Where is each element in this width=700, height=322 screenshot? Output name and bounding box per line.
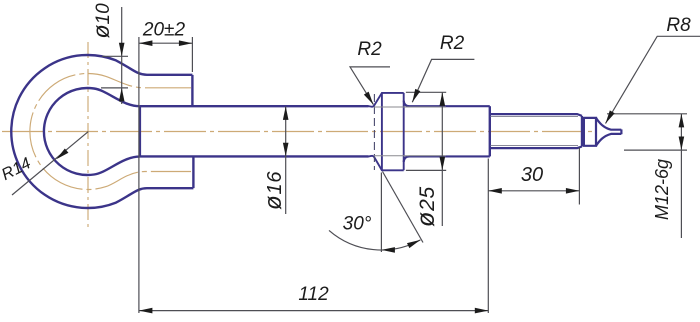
dim ø16 arrows (283, 106, 289, 120)
dim 30deg arrows (381, 247, 395, 253)
dashed line on flange face (373, 94, 375, 170)
leader R8 shelf and line (606, 36, 700, 123)
shaft bottom edge (140, 155, 369, 157)
R2 fillet right top (404, 101, 490, 107)
dim 30deg vertical extension (380, 173, 382, 253)
thread minor diameter line top (491, 116, 578, 118)
30 deg taper top with R2 notch and flange top (369, 93, 404, 107)
svg-text:30: 30 (521, 164, 543, 186)
dim ø10 extension lines (101, 56, 128, 88)
R2 fillet right bottom (404, 156, 490, 162)
svg-text:R2: R2 (440, 33, 465, 54)
dim ø10 arrows (119, 43, 125, 57)
centerline: eye vertical axis (87, 42, 89, 227)
svg-text:ø16: ø16 (260, 171, 287, 210)
leader R2 second arrow (410, 89, 421, 104)
dim ø16 line (285, 106, 287, 214)
eye rod end cap top (191, 75, 193, 106)
thread bottom edge (490, 147, 582, 149)
shared left extension line for 20±2 and 112 (138, 37, 140, 313)
dim 112 line (139, 310, 488, 312)
tip land (584, 118, 596, 146)
svg-text:R2: R2 (357, 39, 382, 60)
R8 tip curve top and nose top (596, 118, 621, 130)
leader R2 second shelf and line (412, 59, 474, 102)
dim 20±2 extension right (191, 37, 193, 72)
centerline: eye rod circle (30, 74, 191, 190)
svg-text:20±2: 20±2 (142, 20, 186, 41)
dim ø10 line (121, 7, 123, 104)
R8 tip curve bottom and nose bottom (596, 134, 621, 146)
leader R14 line (12, 132, 88, 195)
dim M12-6g extension lines (607, 114, 687, 150)
thread minor diameter line bottom (491, 145, 578, 147)
svg-text:M12-6g: M12-6g (652, 159, 672, 220)
dim 112 arrows (139, 308, 153, 314)
thread top edge (490, 114, 582, 116)
dim 20±2 line (139, 42, 193, 44)
tip end cap (620, 129, 622, 134)
leader R14 arrow (55, 148, 69, 161)
eye rod end cap bottom (192, 156, 194, 188)
leader R2 first arrow (364, 92, 376, 106)
svg-text:R8: R8 (666, 15, 691, 36)
shaft top edge (140, 105, 369, 107)
dim 112 extension right (487, 159, 489, 314)
dim 30 extension right (578, 148, 580, 205)
thin silhouette line across flange top (374, 106, 446, 108)
leader R8 arrow (603, 110, 615, 124)
30 deg taper bottom with R2 notch and flange bottom (369, 156, 404, 170)
eye outer contour (11, 55, 193, 208)
dim 30deg arc (329, 230, 420, 250)
dim 30deg taper extension (383, 172, 424, 243)
shaft step face at thread start (489, 106, 491, 156)
dim ø25 line (441, 92, 443, 226)
dim ø25 extension lines (406, 92, 446, 170)
dim M12-6g arrows (679, 114, 685, 128)
svg-text:30°: 30° (343, 214, 372, 235)
dim ø25 arrows (440, 92, 446, 106)
dim 30 line (488, 190, 579, 192)
thread end face (581, 116, 583, 147)
flange left edge (381, 93, 383, 170)
dim 20±2 arrows (139, 40, 153, 46)
centerline: main horizontal axis (2, 131, 596, 133)
thin silhouette line across flange bottom (374, 155, 446, 157)
shaft left edge (139, 106, 141, 156)
dim 30 arrows (488, 188, 502, 194)
leader R2 first shelf and line (350, 67, 390, 105)
svg-text:ø25: ø25 (412, 186, 440, 227)
dim M12-6g line (680, 114, 682, 238)
flange right edge (403, 93, 405, 170)
svg-text:112: 112 (298, 284, 329, 305)
eye inner contour (44, 88, 140, 175)
